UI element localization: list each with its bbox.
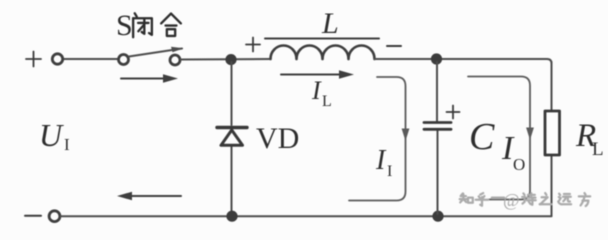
II loop arrowhead <box>402 129 410 142</box>
svg-text:C: C <box>469 116 495 158</box>
label + (capacitor polarity) <box>447 106 460 119</box>
return current arrow (bottom, pointing left) <box>131 195 181 197</box>
diode VD cathode bar <box>217 126 247 129</box>
svg-text:@: @ <box>503 190 520 210</box>
node B junction (top of C) <box>431 53 442 64</box>
label + (inductor left polarity) <box>246 38 260 52</box>
label 合 (glyph drawn as strokes) <box>161 14 181 36</box>
inductor L overline <box>265 38 379 40</box>
svg-text:I: I <box>64 135 70 154</box>
svg-text:L: L <box>322 93 332 110</box>
resistor RL body <box>545 111 560 155</box>
svg-text:O: O <box>513 155 525 174</box>
switch S blade <box>129 49 182 57</box>
label - (inductor right polarity) <box>387 45 401 47</box>
wire diode branch (node A down) <box>231 62 233 214</box>
node input - terminal <box>49 211 60 222</box>
IO loop arrowhead <box>526 128 534 141</box>
node A junction <box>225 54 236 65</box>
watermark 远 <box>558 194 571 205</box>
switch closing direction arrow <box>121 78 166 80</box>
svg-text:S: S <box>116 9 133 42</box>
switch blade arrowhead <box>171 47 184 52</box>
svg-text:L: L <box>592 139 604 160</box>
label - (input negative) <box>25 215 41 217</box>
inductor L coils <box>271 46 375 60</box>
svg-text:I: I <box>387 163 392 180</box>
wire inductor to top-right corner <box>375 59 552 64</box>
IO loop indicator (rounded bracket with down arrow) <box>468 77 530 200</box>
wire load branch top <box>551 62 553 216</box>
svg-text:I: I <box>375 145 387 176</box>
switch S pole contact <box>119 55 129 65</box>
diode VD triangle (anode, pointing up) <box>221 130 243 145</box>
label 闭 (glyph drawn as strokes) <box>133 13 152 37</box>
watermark 之 <box>540 193 552 204</box>
svg-text:L: L <box>321 7 339 40</box>
switch S throw contact <box>170 55 180 65</box>
watermark 诗 <box>522 193 536 205</box>
wire bottom rail <box>61 215 552 217</box>
watermark 知 <box>460 193 473 202</box>
wire top-left: input + terminal to switch <box>63 58 119 60</box>
watermark 乎 <box>476 193 489 206</box>
wire switch to node A <box>181 58 271 61</box>
watermark 方 <box>579 193 590 206</box>
wire capacitor branch <box>436 62 439 214</box>
svg-text:VD: VD <box>256 122 299 155</box>
II loop indicator (rounded bracket with down arrow) <box>349 77 406 201</box>
watermark dash <box>492 197 504 200</box>
svg-text:I: I <box>311 76 322 105</box>
capacitor C top plate <box>424 123 451 130</box>
node bottom junction (capacitor) <box>432 211 443 222</box>
node bottom junction (diode) <box>226 211 237 222</box>
svg-text:U: U <box>39 117 64 153</box>
label + (input positive) <box>26 52 41 67</box>
node input + terminal <box>52 54 62 64</box>
IL current arrow <box>281 74 342 76</box>
